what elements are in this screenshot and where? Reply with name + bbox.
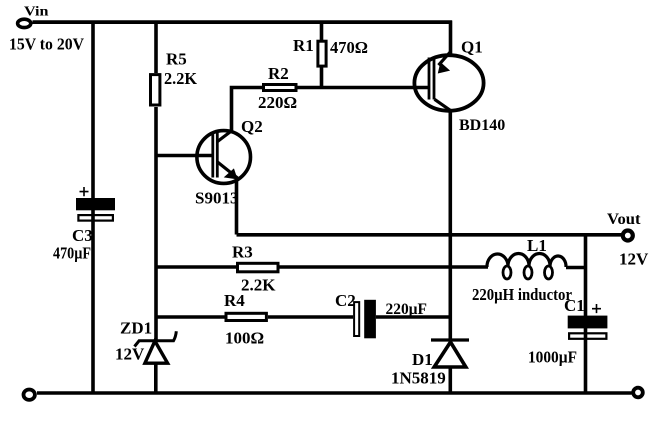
wire C3 vertical: [91, 21, 95, 394]
inductor L1: [487, 254, 508, 267]
diode D1: [431, 338, 469, 341]
svg-text:12V: 12V: [619, 250, 649, 269]
wire bottom rail: [37, 391, 632, 395]
terminal Vin: [18, 19, 31, 27]
wire R4 to C2: [268, 315, 353, 319]
wire top rail: [33, 20, 453, 24]
svg-text:C3: C3: [72, 226, 93, 245]
wire Q1 collector down to D1: [448, 110, 452, 341]
resistor R3: [156, 265, 236, 269]
plus sign of C3: [80, 187, 89, 196]
svg-text:Q2: Q2: [241, 117, 263, 136]
svg-text:470Ω: 470Ω: [330, 38, 368, 57]
wire R3 to L1: [280, 265, 489, 269]
svg-text:R4: R4: [224, 291, 245, 310]
svg-text:R3: R3: [232, 243, 253, 262]
wire L1 to output node: [566, 266, 586, 270]
svg-text:1000µF: 1000µF: [528, 348, 577, 367]
wire feedback to Vout: [237, 233, 622, 237]
svg-text:470µF: 470µF: [53, 244, 91, 263]
svg-text:Vout: Vout: [607, 211, 641, 228]
svg-text:12V: 12V: [115, 345, 145, 364]
svg-text:2.2K: 2.2K: [241, 276, 276, 295]
terminal bottom right: [633, 388, 643, 398]
transistor Q1: [414, 55, 483, 111]
svg-text:R1: R1: [293, 36, 314, 55]
svg-text:Vin: Vin: [24, 5, 49, 20]
svg-text:BD140: BD140: [459, 117, 505, 134]
svg-text:C1: C1: [564, 296, 585, 315]
capacitor C2: [354, 302, 359, 336]
wire Q2 collector up to R2: [232, 88, 263, 132]
resistor R1: [320, 21, 324, 42]
wire output vertical: [584, 235, 588, 393]
svg-text:100Ω: 100Ω: [225, 329, 264, 348]
transistor Q2: [197, 131, 251, 184]
svg-text:C2: C2: [335, 291, 356, 310]
terminal bottom left: [24, 390, 35, 400]
resistor R5: [154, 21, 158, 74]
zener diode ZD1: [135, 331, 177, 346]
wire D1 to bottom rail: [448, 367, 452, 393]
wire ZD1 to bottom rail: [154, 363, 158, 393]
svg-text:220µH inductor: 220µH inductor: [472, 285, 572, 304]
wire C2 to switch node: [376, 315, 450, 319]
wire Q2 emitter down: [235, 179, 239, 235]
resistor R4: [156, 315, 225, 319]
wire Q2 base: [156, 154, 213, 158]
svg-text:Q1: Q1: [461, 38, 483, 57]
svg-text:15V to 20V: 15V to 20V: [9, 34, 85, 53]
svg-text:220Ω: 220Ω: [258, 93, 297, 112]
svg-text:R2: R2: [268, 64, 289, 83]
terminal Vout: [623, 231, 633, 241]
plus sign of C1: [592, 304, 601, 313]
svg-text:S9013: S9013: [195, 189, 238, 208]
svg-text:ZD1: ZD1: [120, 319, 152, 338]
svg-text:1N5819: 1N5819: [391, 369, 446, 388]
capacitor C1: [568, 316, 608, 329]
wire Q1 emitter to rail: [449, 21, 453, 55]
wire R2 to Q1 base: [298, 86, 431, 90]
wire R5 bottom to zener chain: [154, 107, 158, 341]
resistor R2: [264, 85, 297, 91]
svg-text:L1: L1: [527, 236, 547, 255]
svg-text:R5: R5: [166, 50, 187, 69]
svg-text:D1: D1: [412, 350, 433, 369]
capacitor C3: [76, 198, 115, 210]
svg-text:2.2K: 2.2K: [164, 69, 198, 88]
